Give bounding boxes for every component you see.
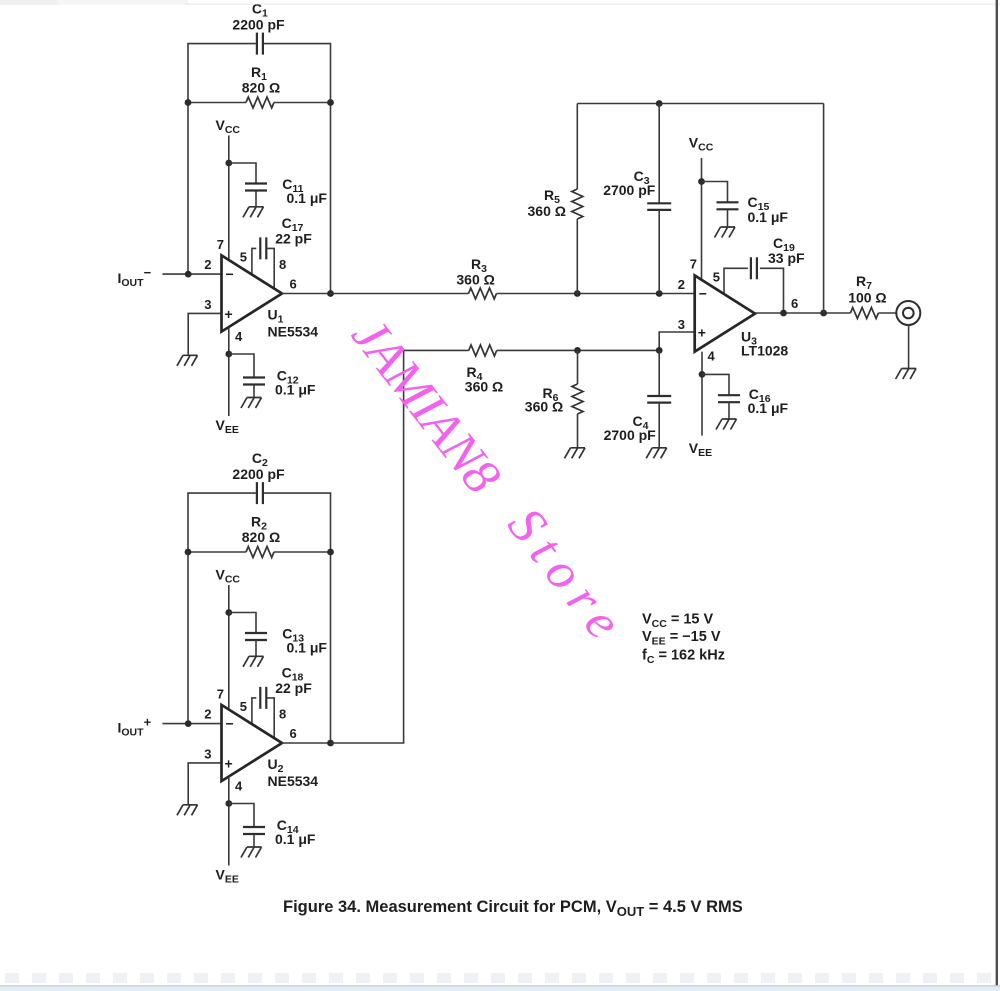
wire R6 bottom lead xyxy=(577,414,579,448)
bottom blue separator line xyxy=(0,985,1000,987)
capacitor C13 xyxy=(245,633,267,640)
wire pin 4 to VEE (U3) xyxy=(701,352,703,436)
svg-text:+: + xyxy=(225,755,233,771)
svg-text:33 pF: 33 pF xyxy=(768,250,805,266)
node output/C19 junction xyxy=(780,310,787,317)
wire to capacitor C13 xyxy=(229,613,256,634)
svg-text:0.1 μF: 0.1 μF xyxy=(748,400,789,416)
wire U1 output to R3 xyxy=(331,293,469,295)
node VCC decoupling junction (U2) xyxy=(225,609,232,616)
ground below R6 xyxy=(565,448,586,459)
wire pin 8 riser (U2) xyxy=(267,698,274,738)
wire pin 4 to VEE (U1) xyxy=(228,327,230,416)
wire U1 output xyxy=(282,293,331,295)
node VCC decoupling junction (U1) xyxy=(225,160,232,167)
wire U2 output riser to R4 line xyxy=(331,350,404,743)
svg-text:3: 3 xyxy=(678,317,685,332)
bottom blue strip xyxy=(5,973,991,983)
wire pin 5 riser (U2) xyxy=(252,698,256,724)
wire R7 to output connector xyxy=(878,312,896,314)
wire C3 bottom lead xyxy=(658,210,660,294)
node R4/C4 junction xyxy=(656,347,663,354)
wire pin 3 to ground (U1) xyxy=(188,313,221,355)
svg-text:22 pF: 22 pF xyxy=(275,680,312,696)
faint top edge line xyxy=(0,0,58,5)
node R3/R5 junction xyxy=(574,290,581,297)
svg-text:360 Ω: 360 Ω xyxy=(525,399,563,415)
wire R2 right lead xyxy=(274,551,331,553)
svg-text:0.1 μF: 0.1 μF xyxy=(287,190,328,206)
wire pin 5 riser (U1) xyxy=(252,248,256,274)
capacitor C16 xyxy=(718,395,740,402)
op-amp U1 triangle xyxy=(222,255,283,331)
resistor R4 xyxy=(469,345,497,356)
wire to capacitor C14 xyxy=(229,804,254,828)
capacitor C11 xyxy=(245,184,267,191)
capacitor C18 xyxy=(260,687,266,709)
wire VCC to pin 7 (U1) xyxy=(228,136,230,261)
svg-text:8: 8 xyxy=(279,707,286,722)
wire R2 left lead xyxy=(188,551,246,553)
capacitor C3 xyxy=(647,203,671,210)
node R2 left junction xyxy=(185,549,192,556)
svg-text:100 Ω: 100 Ω xyxy=(848,290,886,306)
wire C4 top lead xyxy=(658,350,660,396)
svg-text:4: 4 xyxy=(235,779,243,794)
wire C4 bottom lead xyxy=(658,403,660,448)
wire pin 5 riser (U3) xyxy=(724,268,748,294)
ground at pin 3 (U1) xyxy=(177,355,198,366)
svg-text:−: − xyxy=(226,716,234,732)
node input/feedback junction (U1) xyxy=(185,271,192,278)
svg-text:4: 4 xyxy=(708,349,716,364)
svg-text:3: 3 xyxy=(204,297,211,312)
wire R1 left lead xyxy=(188,102,246,104)
output connector outer ring xyxy=(896,301,920,325)
capacitor C17 xyxy=(260,237,266,259)
ground below C13 xyxy=(243,656,264,667)
wire feedback left side to C1 xyxy=(188,44,256,275)
svg-text:22 pF: 22 pF xyxy=(275,230,312,246)
wire pin 3 to ground (U2) xyxy=(188,763,221,805)
svg-text:360 Ω: 360 Ω xyxy=(456,272,494,288)
ground below C12 xyxy=(241,398,262,409)
svg-text:6: 6 xyxy=(290,277,297,292)
wire VCC to pin 7 (U3) xyxy=(701,158,703,280)
svg-text:0.1 μF: 0.1 μF xyxy=(748,209,789,225)
svg-text:+: + xyxy=(225,306,233,322)
node input/feedback junction (U2) xyxy=(185,720,192,727)
node U1 output junction xyxy=(327,290,334,297)
svg-text:820 Ω: 820 Ω xyxy=(242,80,280,96)
svg-text:2: 2 xyxy=(678,277,685,292)
resistor R6 xyxy=(572,384,583,414)
svg-text:820 Ω: 820 Ω xyxy=(242,529,280,545)
svg-text:8: 8 xyxy=(279,257,286,272)
ground below C14 xyxy=(241,847,262,858)
op-amp U2 triangle xyxy=(222,705,283,781)
ground below C11 xyxy=(243,207,264,218)
capacitor C12 xyxy=(243,378,265,385)
op-amp U3 triangle xyxy=(695,276,755,352)
svg-text:5: 5 xyxy=(240,250,247,265)
capacitor C19 xyxy=(751,257,757,279)
node pin 4 decoupling junction (U2) xyxy=(225,800,232,807)
svg-text:2200 pF: 2200 pF xyxy=(232,17,285,33)
svg-text:2700 pF: 2700 pF xyxy=(604,427,657,443)
wire C16 to ground xyxy=(728,402,730,419)
svg-text:6: 6 xyxy=(290,726,297,741)
wire C11 to ground xyxy=(255,191,257,207)
wire pin 8 riser (U1) xyxy=(267,248,274,288)
svg-text:5: 5 xyxy=(240,699,247,714)
wire C12 to ground xyxy=(253,385,255,398)
wire connector to ground xyxy=(908,324,910,368)
svg-text:7: 7 xyxy=(690,257,697,272)
wire C14 to ground xyxy=(253,834,255,847)
wire R4 left lead xyxy=(404,349,469,351)
node R2 right junction xyxy=(327,549,334,556)
resistor R3 xyxy=(469,288,497,299)
wire R5 bottom lead xyxy=(576,219,578,294)
svg-text:4: 4 xyxy=(235,329,243,344)
svg-text:5: 5 xyxy=(713,270,720,285)
wire R3 to U3 pin 2 xyxy=(497,293,695,295)
node R1 left junction xyxy=(185,99,192,106)
svg-text:2: 2 xyxy=(204,707,211,722)
node output/feedback junction xyxy=(820,310,827,317)
resistor R2 xyxy=(246,547,274,558)
svg-text:2: 2 xyxy=(204,257,211,272)
svg-text:NE5534: NE5534 xyxy=(268,324,319,340)
wire input to pin 2 (U2) xyxy=(162,723,221,725)
wire top feedback rail xyxy=(577,103,823,105)
ground at pin 3 (U2) xyxy=(177,805,198,816)
svg-text:0.1 μF: 0.1 μF xyxy=(287,640,328,656)
node pin 4 decoupling junction (U1) xyxy=(225,351,232,358)
node R1 right junction xyxy=(327,99,334,106)
svg-text:2200 pF: 2200 pF xyxy=(232,466,285,482)
node R3/C3 junction xyxy=(656,290,663,297)
output connector inner ring xyxy=(903,308,914,319)
wire C3 top lead xyxy=(658,104,660,204)
ground below C15 xyxy=(715,227,736,238)
capacitor C15 xyxy=(717,202,739,209)
node pin 4 decoupling junction (U3) xyxy=(699,371,706,378)
svg-text:7: 7 xyxy=(217,687,224,702)
wire C13 to ground xyxy=(255,640,257,656)
wire to capacitor C11 xyxy=(229,163,256,184)
node R4/R6 junction xyxy=(574,347,581,354)
svg-text:NE5534: NE5534 xyxy=(268,773,319,789)
capacitor C2 xyxy=(257,482,263,504)
svg-text:7: 7 xyxy=(217,237,224,252)
wire pin 4 to VEE (U2) xyxy=(228,776,230,865)
capacitor C1 xyxy=(257,33,263,55)
wire U2 output xyxy=(282,742,331,744)
resistor R5 xyxy=(572,189,583,219)
svg-text:fC = 162 kHz: fC = 162 kHz xyxy=(642,648,725,667)
node U2 output junction xyxy=(327,740,334,747)
svg-text:0.1 μF: 0.1 μF xyxy=(275,382,316,398)
wire feedback to top rail xyxy=(823,104,825,314)
svg-text:0.1 μF: 0.1 μF xyxy=(275,831,316,847)
wire to capacitor C15 xyxy=(702,182,728,203)
capacitor C14 xyxy=(243,827,265,834)
svg-text:Figure 34. Measurement Circuit: Figure 34. Measurement Circuit for PCM, … xyxy=(283,898,743,919)
wire C19 to output node xyxy=(760,268,784,313)
svg-text:LT1028: LT1028 xyxy=(741,343,788,359)
wire R1 right lead xyxy=(274,102,331,104)
node VCC decoupling junction (U3) xyxy=(698,178,705,185)
svg-text:3: 3 xyxy=(204,747,211,762)
capacitor C4 xyxy=(647,396,671,403)
svg-text:2700 pF: 2700 pF xyxy=(603,182,656,198)
wire VCC to pin 7 (U2) xyxy=(228,585,230,710)
svg-text:−: − xyxy=(699,286,707,302)
wire C15 to ground xyxy=(727,209,729,227)
wire R4 to pin 3 jog of U3 xyxy=(497,332,695,350)
svg-text:6: 6 xyxy=(791,296,798,311)
wire U3 output xyxy=(755,312,850,314)
ground below C4 xyxy=(646,448,667,459)
resistor R1 xyxy=(246,97,274,108)
wire input to pin 2 (U1) xyxy=(162,273,221,275)
wire to capacitor C16 xyxy=(702,374,729,395)
resistor R7 xyxy=(850,308,878,319)
wire feedback left side to C2 xyxy=(188,493,256,723)
svg-text:360 Ω: 360 Ω xyxy=(528,203,566,219)
node top rail / C3 junction xyxy=(656,100,663,107)
wire feedback right side from C1 xyxy=(264,44,331,294)
ground below output connector xyxy=(896,369,917,380)
wire R5 top lead xyxy=(576,104,578,190)
wire R6 top lead xyxy=(577,350,579,384)
ground below C16 xyxy=(716,419,737,430)
svg-text:360 Ω: 360 Ω xyxy=(465,379,503,395)
right edge dark line xyxy=(996,0,998,986)
wire feedback right side from C2 xyxy=(264,493,331,743)
svg-text:+: + xyxy=(698,324,706,340)
svg-text:−: − xyxy=(226,266,234,282)
wire to capacitor C12 xyxy=(229,354,254,378)
